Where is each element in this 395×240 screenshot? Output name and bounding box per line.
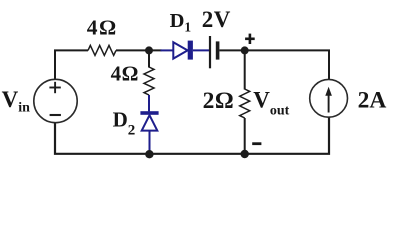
node B junction dot (top right) (241, 46, 249, 54)
current source arrow shaft (328, 95, 330, 113)
node C junction dot (bottom middle) (145, 150, 153, 158)
wire: R2 bottom to D2 cathode (blue) (148, 95, 150, 111)
svg-text:2A: 2A (358, 88, 387, 114)
Vin plus sign (49, 82, 60, 93)
diode D1 triangle (173, 42, 187, 58)
battery V1 long plate (209, 36, 211, 68)
diode D1 cathode bar (188, 41, 193, 60)
resistor R 4ohm horizontal (88, 45, 116, 55)
wire: battery to node B to top-right corner down to current source (219, 50, 329, 79)
voltage source Vin circle (34, 79, 77, 122)
battery V1 short plate (216, 41, 220, 59)
label - (Vout minus sign) (252, 142, 261, 145)
svg-text:2Ω: 2Ω (203, 88, 235, 114)
wire: node A down to R2 (148, 50, 150, 67)
svg-text:4Ω: 4Ω (111, 62, 139, 86)
svg-text:D2: D2 (113, 107, 136, 138)
wire: D1 cathode to battery (blue) (193, 49, 209, 51)
svg-text:Vout: Vout (253, 88, 289, 119)
node D junction dot (bottom right) (241, 150, 249, 158)
svg-text:4Ω: 4Ω (87, 15, 118, 39)
resistor R 2ohm vertical (240, 89, 250, 118)
node A junction dot (top middle) (145, 46, 153, 54)
svg-text:D1: D1 (170, 10, 192, 35)
wire: bottom rail (left column bottom, bottom wire, right column up to current source) (55, 117, 329, 154)
svg-text:2V: 2V (202, 7, 231, 32)
diode D2 triangle (142, 115, 158, 130)
svg-text:Vin: Vin (2, 87, 31, 116)
wire: D1 anode lead (blue) (161, 49, 174, 51)
current source I1 circle (310, 79, 348, 117)
wire: D2 anode down to bottom rail (blue) (149, 131, 151, 153)
wire: node B down to R3 (244, 50, 246, 89)
wire: left branch top (Vin top to top-left corner to R1 left lead) (55, 50, 88, 79)
Vin minus sign (50, 114, 61, 116)
current source arrow head (325, 87, 332, 96)
label + (Vout plus sign) (245, 34, 255, 44)
resistor R 4ohm vertical (144, 67, 154, 95)
diode D2 cathode bar (140, 111, 158, 115)
wire: R1 right lead to node A (116, 49, 162, 51)
wire: R3 bottom to bottom rail (244, 118, 246, 154)
